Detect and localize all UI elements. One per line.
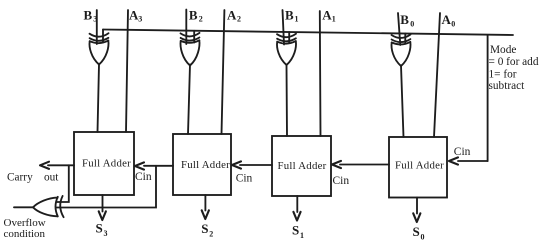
- svg-text:2: 2: [209, 230, 213, 239]
- svg-text:Cin: Cin: [135, 171, 152, 183]
- svg-text:2: 2: [199, 15, 203, 24]
- svg-text:1= for: 1= for: [489, 69, 517, 81]
- svg-text:A: A: [442, 12, 452, 27]
- svg-text:Carry: Carry: [7, 172, 33, 184]
- svg-text:3: 3: [104, 229, 108, 238]
- svg-text:Mode: Mode: [490, 44, 516, 56]
- svg-text:0: 0: [410, 20, 414, 29]
- svg-text:S: S: [201, 221, 208, 236]
- svg-text:Full Adder: Full Adder: [278, 160, 327, 172]
- svg-text:S: S: [292, 223, 299, 238]
- svg-text:S: S: [413, 224, 420, 239]
- svg-text:2: 2: [237, 15, 241, 24]
- svg-text:3: 3: [138, 15, 142, 24]
- svg-text:1: 1: [295, 15, 299, 24]
- svg-text:subtract: subtract: [489, 80, 526, 92]
- svg-text:Full Adder: Full Adder: [395, 159, 444, 171]
- svg-text:1: 1: [332, 15, 336, 24]
- svg-text:condition: condition: [4, 228, 46, 240]
- svg-text:out: out: [44, 172, 59, 184]
- svg-text:Cin: Cin: [236, 173, 253, 185]
- svg-text:A: A: [227, 8, 237, 23]
- svg-text:Full Adder: Full Adder: [82, 158, 131, 170]
- svg-text:S: S: [96, 220, 103, 235]
- svg-text:0: 0: [451, 20, 455, 29]
- svg-text:Cin: Cin: [333, 175, 350, 187]
- svg-text:B: B: [189, 8, 198, 23]
- svg-text:Cin: Cin: [454, 146, 471, 158]
- svg-text:3: 3: [93, 15, 97, 24]
- svg-text:A: A: [322, 8, 332, 23]
- svg-text:B: B: [285, 8, 294, 23]
- svg-text:B: B: [84, 8, 93, 23]
- svg-text:B: B: [400, 12, 409, 27]
- svg-text:1: 1: [300, 231, 304, 240]
- svg-text:= 0 for add: = 0 for add: [489, 56, 539, 68]
- svg-text:Full Adder: Full Adder: [181, 159, 230, 171]
- svg-text:0: 0: [421, 233, 425, 242]
